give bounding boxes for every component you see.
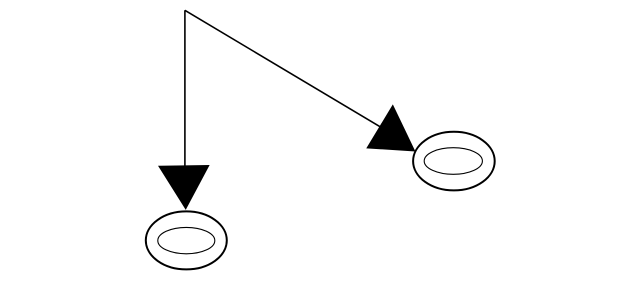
arrowhead on vertical edge (points down at left node) <box>159 166 209 209</box>
node A: left double-ellipse inner ring <box>158 227 215 253</box>
node B: right double-ellipse inner ring <box>424 148 482 175</box>
wire: vertical edge from apex down to left node <box>184 10 186 170</box>
wire: diagonal edge from apex to right node <box>185 10 380 126</box>
arrowhead on diagonal edge (points down-right at right node) <box>367 105 415 150</box>
node A: left double-ellipse outer ring <box>146 211 227 269</box>
node B: right double-ellipse outer ring <box>413 132 495 191</box>
